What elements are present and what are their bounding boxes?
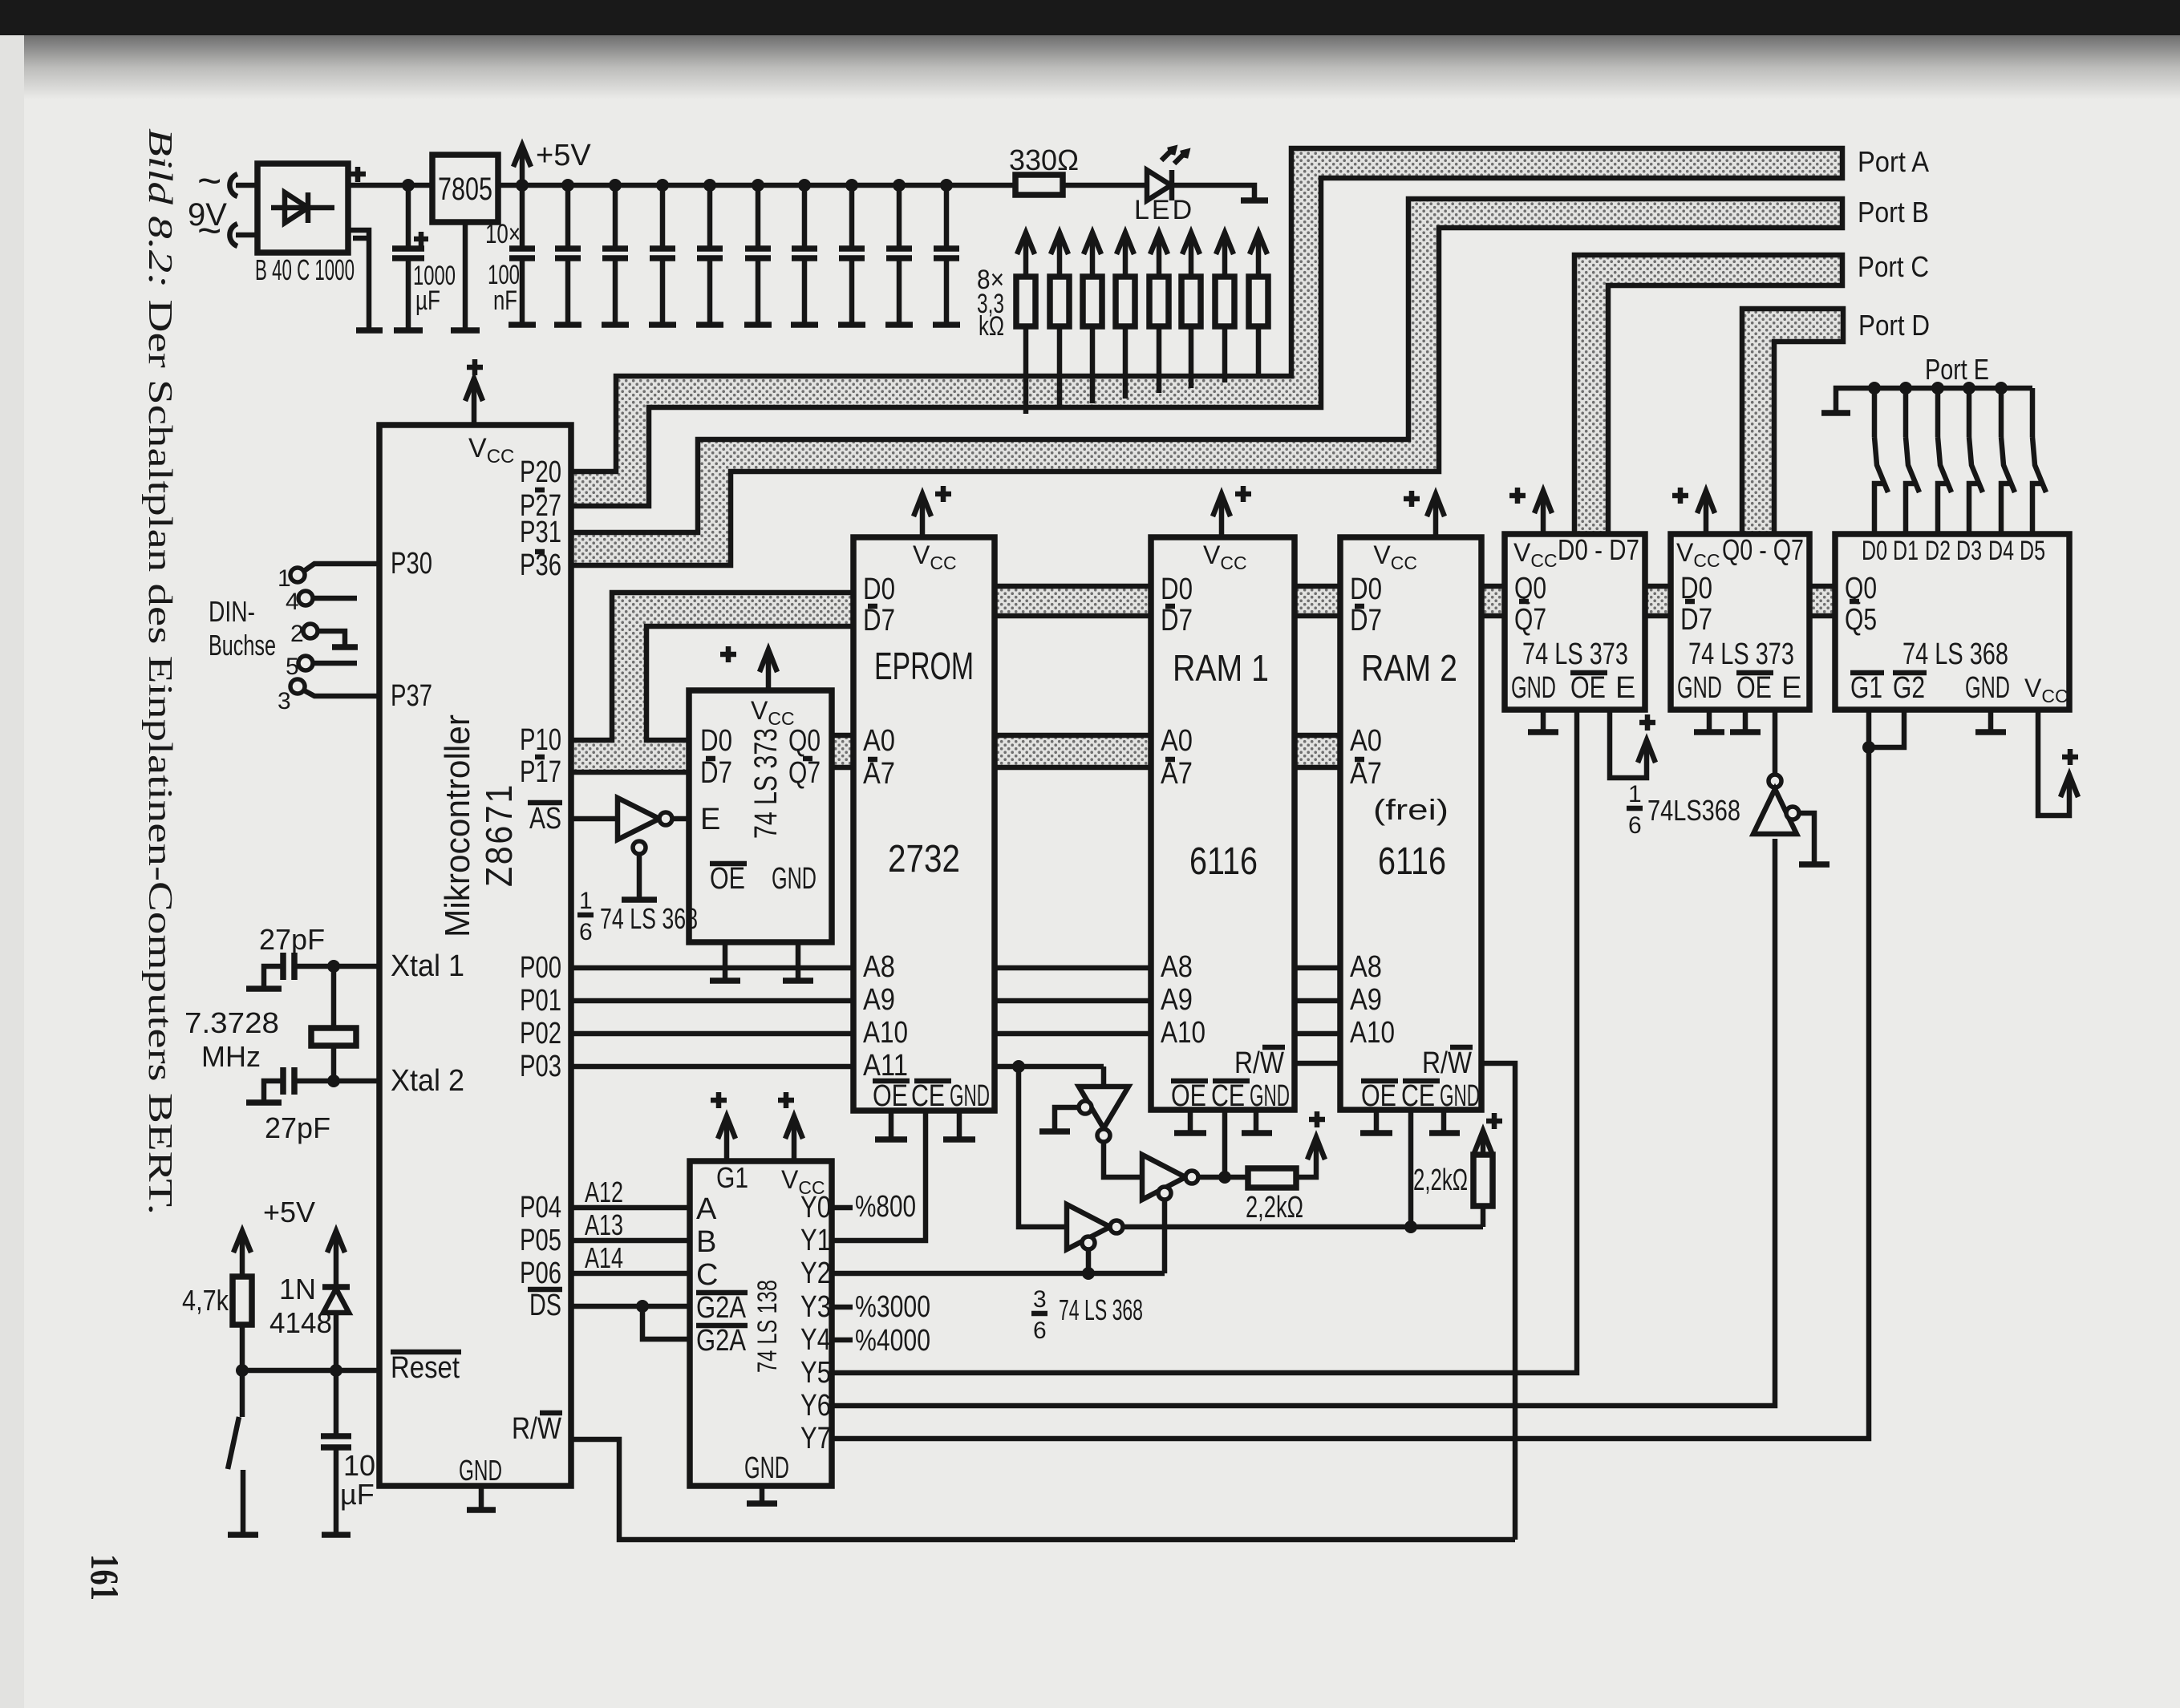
svg-text:7.3728: 7.3728 — [184, 1006, 279, 1039]
ground GND 74LS373#2 — [1694, 729, 1724, 735]
svg-text:74 LS 368: 74 LS 368 — [1059, 1293, 1143, 1326]
wire GND latch to ground — [796, 942, 801, 980]
node - output label — [353, 236, 371, 241]
svg-text:A0: A0 — [1161, 724, 1193, 758]
switch Port E bit 1 — [1899, 382, 1912, 395]
bus 74LS373 D0-D7 to Port C — [1574, 255, 1842, 534]
wire GND EPROM to ground — [957, 1111, 962, 1139]
ground OE RAM2 — [1360, 1130, 1392, 1136]
ground 100nF #2 — [554, 322, 581, 328]
ground 100nF #7 — [791, 322, 818, 328]
svg-text:A10: A10 — [1161, 1016, 1205, 1050]
ground DIN pin 2 — [332, 644, 358, 650]
wire inv2 enable down to Y2 — [1162, 1200, 1168, 1273]
wire inv1 enable to ground — [1055, 1107, 1079, 1131]
svg-text:D7: D7 — [700, 756, 732, 790]
svg-text:P04: P04 — [520, 1191, 561, 1224]
latch 74LS373 #1 (Port C) — [1505, 534, 1645, 710]
capacitor 100nF #9 — [893, 179, 906, 192]
inverter 1/6 74LS368 (E latch2) — [1773, 710, 1778, 775]
capacitor 100nF #6 — [752, 179, 764, 192]
svg-text:GND: GND — [1440, 1079, 1480, 1113]
svg-text:74 LS 373: 74 LS 373 — [1522, 637, 1628, 671]
pin Vcc RAM2 — [1433, 496, 1439, 537]
voltage regulator 7805 — [432, 155, 498, 222]
svg-text:%3000: %3000 — [855, 1290, 930, 1324]
ground 1000uF — [394, 327, 423, 334]
svg-text:A: A — [696, 1192, 717, 1226]
wire Y2 line — [832, 1271, 1165, 1277]
svg-text:E: E — [700, 803, 720, 836]
node + output label — [351, 167, 366, 182]
wire OE RAM2 to ground — [1374, 1110, 1380, 1132]
diode 1N4148 — [334, 1232, 339, 1287]
svg-text:Y1: Y1 — [800, 1224, 831, 1257]
svg-text:µF: µF — [415, 285, 440, 316]
svg-text:(frei): (frei) — [1373, 793, 1449, 826]
svg-text:GND: GND — [1965, 671, 2010, 705]
wire CE RAM1 down — [1222, 1110, 1228, 1177]
svg-text:C: C — [696, 1258, 718, 1292]
resistor 3.3k pull-up #7 — [1222, 326, 1228, 382]
svg-text:A0: A0 — [863, 724, 895, 758]
svg-text:Y2: Y2 — [800, 1257, 831, 1290]
wire R/W RAM2 to right and down — [1481, 1063, 1515, 1540]
svg-text:kΩ: kΩ — [979, 311, 1004, 342]
microcontroller Z8671 — [379, 425, 571, 1486]
svg-text:10: 10 — [343, 1449, 375, 1482]
svg-text:161: 161 — [83, 1554, 128, 1601]
wire 2,2k #2 to +5V arrow — [1481, 1132, 1486, 1155]
ground 10uF — [322, 1532, 351, 1538]
svg-text:nF: nF — [493, 285, 517, 316]
svg-text:OE: OE — [1736, 671, 1772, 705]
wire CE EPROM to Y1 — [832, 1111, 926, 1241]
wire switch contact to D5 pin — [2032, 484, 2041, 534]
capacitor 100nF #10 — [940, 179, 953, 192]
svg-text:D7: D7 — [1161, 604, 1193, 637]
svg-text:VCC: VCC — [2024, 674, 2069, 706]
RAM 2 6116 — [1340, 537, 1481, 1110]
svg-text:10×: 10× — [485, 219, 521, 249]
wire inv3 enable to Y2 dot — [1086, 1249, 1092, 1273]
svg-text:D7: D7 — [863, 604, 895, 637]
svg-text:E: E — [1781, 671, 1801, 705]
svg-text:GND: GND — [772, 862, 816, 896]
svg-text:A14: A14 — [585, 1241, 623, 1274]
wire GND 74LS373#2 to ground — [1707, 710, 1712, 731]
capacitor 100nF #4 — [656, 179, 669, 192]
svg-text:P10: P10 — [520, 723, 561, 757]
wire Vcc 74LS368 to +5V — [2038, 710, 2069, 816]
ground GND RAM2 — [1429, 1130, 1460, 1136]
svg-text:R/W: R/W — [1422, 1046, 1472, 1080]
wire reset line — [242, 1368, 379, 1374]
svg-text:VCC: VCC — [1676, 538, 1720, 571]
svg-text:6: 6 — [1628, 812, 1642, 839]
svg-text:Q5: Q5 — [1845, 603, 1877, 637]
svg-text:D0: D0 — [1161, 573, 1193, 606]
EPROM 2732 — [853, 537, 995, 1111]
capacitor 100nF #1 — [516, 179, 529, 192]
svg-text:A12: A12 — [585, 1176, 623, 1208]
svg-text:A9: A9 — [863, 983, 895, 1017]
svg-text:RAM 1: RAM 1 — [1173, 647, 1269, 689]
svg-text:D0: D0 — [1350, 573, 1382, 606]
svg-text:R/W: R/W — [512, 1412, 561, 1446]
svg-text:G2A: G2A — [696, 1324, 747, 1358]
svg-text:74 LS 368: 74 LS 368 — [1902, 637, 2008, 671]
AC input connector lower — [229, 224, 237, 246]
svg-text:CE: CE — [1211, 1079, 1245, 1113]
wire inv2 out junction — [1198, 1175, 1248, 1180]
svg-text:D2: D2 — [1925, 536, 1951, 566]
wire 7805 GND down — [463, 222, 468, 330]
bus address RAM1-RAM2 — [1295, 735, 1340, 767]
bus data EPROM-RAM1 — [995, 586, 1151, 616]
svg-text:A13: A13 — [585, 1208, 623, 1241]
buffer 74LS368 (Port E) — [1835, 534, 2069, 710]
ground 100nF #5 — [696, 322, 723, 328]
svg-text:27pF: 27pF — [265, 1111, 330, 1144]
ground 74LS138 — [747, 1500, 777, 1507]
wire CE RAM2 down to dot — [1408, 1110, 1414, 1228]
svg-text:6: 6 — [579, 919, 593, 945]
svg-text:GND: GND — [1250, 1079, 1290, 1113]
svg-text:27pF: 27pF — [259, 923, 325, 956]
wire Port E common line — [1836, 388, 2032, 412]
ground 27pF lower — [246, 1099, 282, 1106]
ground 100nF #9 — [885, 322, 913, 328]
wire A11 out EPROM right — [995, 1064, 1104, 1070]
svg-text:P05: P05 — [520, 1224, 561, 1257]
node junction Xtal1 — [327, 960, 340, 973]
ground GND EPROM — [943, 1136, 975, 1143]
wire OE latch to ground — [723, 942, 728, 980]
node junction A11 branch — [1012, 1060, 1025, 1073]
svg-text:D0: D0 — [863, 573, 895, 606]
bus address EPROM-RAM1 — [995, 735, 1151, 767]
wire G2 tie to G1 — [1869, 710, 1904, 747]
wire switch contact to D0 pin — [1874, 484, 1883, 534]
svg-text:Port D: Port D — [1858, 309, 1930, 342]
svg-text:+5V: +5V — [263, 1196, 315, 1228]
svg-text:6116: 6116 — [1378, 840, 1446, 883]
ground Z8671 — [467, 1507, 496, 1513]
capacitor 1000uF electrolytic — [406, 185, 411, 249]
svg-text:GND: GND — [1511, 671, 1556, 705]
svg-text:AS: AS — [529, 802, 561, 836]
svg-text:GND: GND — [950, 1079, 990, 1113]
wire A11 branch down to inverter3 input — [1019, 1066, 1067, 1227]
bus 74LS373 Q0-Q7 to Port D — [1742, 309, 1843, 534]
svg-text:G1: G1 — [1850, 671, 1882, 705]
svg-text:P00: P00 — [520, 951, 561, 985]
svg-text:VCC: VCC — [913, 540, 957, 573]
svg-text:~: ~ — [197, 208, 221, 254]
wire 7805 out to rail — [498, 183, 522, 188]
svg-text:EPROM: EPROM — [874, 646, 974, 688]
node junction Y2-inv3 enable — [1082, 1267, 1095, 1280]
wire 330R to LED — [1063, 183, 1147, 188]
svg-text:2732: 2732 — [888, 838, 960, 880]
RAM 1 6116 — [1151, 537, 1295, 1110]
svg-text:4,7k: 4,7k — [182, 1284, 229, 1317]
svg-text:3: 3 — [1033, 1286, 1047, 1313]
wire OE RAM1 to ground — [1188, 1110, 1193, 1132]
ground 100nF #4 — [649, 322, 676, 328]
svg-text:Port A: Port A — [1858, 145, 1929, 178]
svg-text:RAM 2: RAM 2 — [1361, 647, 1457, 689]
svg-text:Y3: Y3 — [800, 1290, 831, 1324]
pin Vcc 74LS373 address — [766, 651, 772, 690]
ground E inverter — [1799, 861, 1829, 868]
svg-text:7805: 7805 — [438, 172, 492, 207]
ground 74LS373#1 — [1528, 729, 1558, 735]
svg-text:GND: GND — [1677, 671, 1722, 705]
node junction CE RAM2 — [1404, 1220, 1417, 1233]
ground 27pF upper — [246, 986, 282, 992]
ground Port E — [1821, 410, 1850, 416]
resistor 2,2k #1 — [1248, 1168, 1296, 1188]
svg-text:D3: D3 — [1956, 536, 1982, 566]
svg-text:P17: P17 — [520, 755, 561, 789]
svg-text:µF: µF — [340, 1478, 375, 1511]
bus data 74LS373-74LS373 — [1645, 586, 1671, 616]
svg-text:P02: P02 — [520, 1017, 561, 1050]
svg-text:Buchse: Buchse — [209, 629, 276, 662]
svg-text:Z8671: Z8671 — [478, 783, 520, 887]
svg-text:D7: D7 — [1680, 603, 1712, 637]
inverter 3/6 74LS368 #2 (pointing right) — [1142, 1155, 1185, 1200]
svg-text:P20: P20 — [520, 455, 561, 489]
svg-text:A9: A9 — [1161, 983, 1193, 1017]
svg-text:4148: 4148 — [269, 1306, 332, 1339]
ground inv1 enable — [1039, 1128, 1070, 1135]
resistor 3.3k pull-up #1 — [1023, 326, 1029, 414]
wire A14 P06 to C — [571, 1271, 690, 1277]
svg-text:Xtal 2: Xtal 2 — [391, 1064, 464, 1098]
wire switch contact to D3 pin — [1969, 484, 1978, 534]
LED diode — [1147, 170, 1171, 200]
svg-text:Port B: Port B — [1858, 196, 1929, 229]
svg-text:Q7: Q7 — [1514, 603, 1546, 637]
bus P20-P27 to Port A — [571, 148, 1842, 506]
ground OE EPROM — [875, 1136, 907, 1143]
pin Vcc 74LS373#2 — [1704, 492, 1709, 534]
svg-text:A8: A8 — [1350, 950, 1382, 984]
switch Port E bit 3 — [1963, 382, 1975, 395]
capacitors 10x 100nF decoupling row — [485, 219, 521, 316]
ground OE 74LS373#2 — [1730, 729, 1761, 735]
capacitor 100nF #2 — [561, 179, 574, 192]
latch 74LS373 address — [689, 690, 832, 942]
svg-text:Y6: Y6 — [800, 1389, 831, 1423]
svg-text:P30: P30 — [391, 547, 432, 581]
svg-text:CE: CE — [1401, 1079, 1435, 1113]
wire E 74LS373#1 to +5V — [1610, 710, 1647, 778]
svg-text:A0: A0 — [1350, 724, 1382, 758]
pin Vcc arrow Z8671 — [472, 380, 477, 425]
wire switch contact to D4 pin — [2001, 484, 2010, 534]
node +5V arrow — [520, 147, 525, 185]
ground 100nF #3 — [602, 322, 629, 328]
wire GND 74LS368 to ground — [1988, 710, 1994, 731]
bridge rectifier B40C1000 — [257, 164, 348, 253]
resistor 2,2k #2 — [1481, 1206, 1486, 1227]
wire Y5 to 74LS373#1 OE — [832, 710, 1577, 1373]
svg-text:A7: A7 — [1161, 757, 1193, 791]
svg-text:1: 1 — [1628, 781, 1642, 807]
capacitor 100nF #5 — [703, 179, 716, 192]
svg-text:Bild 8.2: Der Schaltplan des: Bild 8.2: Der Schaltplan des Einplatinen… — [141, 128, 178, 1215]
wire OE EPROM to ground — [889, 1111, 894, 1139]
crystal 7.3728 MHz — [331, 966, 337, 1028]
svg-text:A10: A10 — [863, 1016, 908, 1050]
svg-text:CE: CE — [911, 1079, 945, 1113]
svg-text:D1: D1 — [1893, 536, 1919, 566]
resistor 3.3k pull-up #8 — [1256, 326, 1262, 377]
svg-text:%4000: %4000 — [855, 1324, 930, 1358]
wire A11 line P03 — [571, 1064, 853, 1070]
wire A8 line P00 — [571, 965, 853, 971]
svg-text:74 LS 138: 74 LS 138 — [752, 1280, 783, 1373]
wire switch contact to D2 pin — [1938, 484, 1947, 534]
AC input connector upper — [229, 174, 237, 196]
switch Port E bit 5 — [2030, 388, 2036, 437]
wire A9 line P01 — [571, 998, 853, 1004]
svg-text:D4: D4 — [1988, 536, 2014, 566]
svg-text:Y0: Y0 — [800, 1191, 831, 1224]
svg-text:Y4: Y4 — [800, 1323, 831, 1357]
svg-text:R/W: R/W — [1234, 1046, 1284, 1080]
wire switch contact to D1 pin — [1906, 484, 1915, 534]
svg-text:A8: A8 — [1161, 950, 1193, 984]
ground 100nF #10 — [933, 322, 960, 328]
svg-text:LED: LED — [1134, 195, 1194, 225]
pin Vcc 74LS373#1 — [1541, 492, 1546, 534]
node junction G1-G2 — [1862, 741, 1875, 754]
capacitor 100nF #8 — [845, 179, 858, 192]
ground OE RAM1 — [1174, 1130, 1206, 1136]
svg-text:74LS368: 74LS368 — [1647, 794, 1740, 827]
node junction CE RAM1 — [1218, 1171, 1231, 1184]
svg-text:A7: A7 — [863, 757, 895, 791]
ground AS inverter enable — [622, 896, 657, 903]
capacitor 27pF lower — [264, 1081, 283, 1102]
ground 74LS368 — [1975, 729, 2006, 735]
bus P10-P17 data to 74LS373 and EPROM D0-D7 — [571, 593, 853, 772]
svg-text:2,2kΩ: 2,2kΩ — [1413, 1164, 1468, 1197]
wire GND 74LS373#1 to ground — [1541, 710, 1546, 731]
svg-text:B 40 C 1000: B 40 C 1000 — [255, 253, 355, 286]
svg-text:Xtal 1: Xtal 1 — [391, 949, 464, 983]
svg-text:Y7: Y7 — [800, 1422, 831, 1455]
svg-text:DIN-: DIN- — [209, 595, 255, 628]
svg-text:%800: %800 — [855, 1190, 916, 1224]
ground GND RAM1 — [1242, 1130, 1272, 1136]
svg-text:Q7: Q7 — [788, 756, 821, 790]
switch Port E bit 0 — [1868, 382, 1881, 395]
wire GND RAM1 to ground — [1254, 1110, 1259, 1132]
resistor 3.3k pull-up #2 — [1057, 326, 1063, 409]
pin Vcc RAM1 — [1219, 496, 1225, 537]
ground OE latch — [710, 977, 740, 984]
wire bridge - output down to ground — [348, 230, 369, 330]
wire AC lower to bridge — [236, 233, 257, 238]
svg-text:D0: D0 — [700, 724, 732, 758]
svg-text:E: E — [1615, 671, 1635, 705]
ground GND latch — [783, 977, 813, 984]
svg-text:OE: OE — [710, 862, 745, 896]
svg-text:D0 - D7: D0 - D7 — [1558, 533, 1639, 566]
wire R/W from Z8671 to RAM R/W — [571, 1439, 1515, 1540]
wire bridge + output to 7805 — [348, 183, 432, 188]
svg-text:Reset: Reset — [391, 1351, 460, 1385]
ground 7805 — [451, 327, 480, 334]
svg-text:OE: OE — [1171, 1079, 1206, 1113]
svg-text:D7: D7 — [1350, 604, 1382, 637]
svg-text:A9: A9 — [1350, 983, 1382, 1017]
wire inv1 out to inv2 in — [1104, 1142, 1142, 1177]
capacitor 100nF #7 — [798, 179, 811, 192]
svg-text:1: 1 — [579, 888, 593, 914]
ground reset switch — [228, 1532, 258, 1538]
svg-text:Mikrocontroller: Mikrocontroller — [438, 714, 477, 937]
wire A10 line P02 — [571, 1031, 853, 1037]
svg-text:B: B — [696, 1225, 716, 1259]
svg-text:GND: GND — [459, 1454, 502, 1487]
svg-text:VCC: VCC — [1513, 538, 1558, 571]
node junction dot 1000uF — [402, 179, 415, 192]
svg-text:A10: A10 — [1350, 1016, 1395, 1050]
svg-text:6: 6 — [1033, 1317, 1047, 1344]
resistor 4,7k pull-up — [240, 1232, 245, 1277]
ground 100nF #8 — [838, 322, 865, 328]
resistor 3.3k pull-up #3 — [1090, 326, 1096, 403]
page background top scan shadow — [0, 0, 2180, 35]
switch Port E bit 2 — [1931, 382, 1944, 395]
svg-text:A7: A7 — [1350, 757, 1382, 791]
svg-text:P06: P06 — [520, 1257, 561, 1290]
svg-text:VCC: VCC — [1203, 540, 1247, 573]
svg-text:Q0 - Q7: Q0 - Q7 — [1722, 533, 1804, 566]
svg-text:G2A: G2A — [696, 1291, 747, 1325]
svg-text:74 LS 368: 74 LS 368 — [600, 902, 698, 935]
svg-text:74 LS 373: 74 LS 373 — [1688, 637, 1794, 671]
ground LED — [1241, 197, 1268, 204]
pin Vcc EPROM — [920, 496, 926, 537]
latch 74LS373 #2 (Port D) — [1671, 534, 1809, 710]
wire Y6 to E inverter input — [832, 839, 1775, 1406]
wire LED cathode to ground — [1172, 185, 1254, 200]
svg-text:330Ω: 330Ω — [1009, 144, 1079, 176]
svg-text:D5: D5 — [2020, 536, 2045, 566]
svg-text:OE: OE — [1570, 671, 1606, 705]
inverter 3/6 74LS368 #3 (pointing right) — [1067, 1204, 1110, 1249]
node junction reset-diode — [330, 1364, 342, 1377]
svg-text:A8: A8 — [863, 950, 895, 984]
wire +5V rail — [522, 183, 1015, 188]
bus address 74LS373 Q to EPROM A0-A7 — [832, 735, 853, 767]
switch Port E bit 4 — [1995, 382, 2008, 395]
wire GND RAM2 to ground — [1441, 1110, 1447, 1132]
svg-text:1N: 1N — [279, 1273, 316, 1305]
svg-text:D0: D0 — [1862, 536, 1887, 566]
svg-text:Y5: Y5 — [800, 1356, 831, 1390]
svg-text:A11: A11 — [863, 1049, 908, 1083]
svg-text:Q0: Q0 — [788, 724, 821, 758]
